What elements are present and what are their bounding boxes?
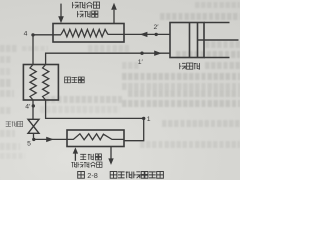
condenser box	[53, 24, 124, 43]
wire: regenerator to throttle valve	[32, 100, 34, 120]
label: 压缩机 (compressor)	[179, 63, 200, 69]
evaporator box	[67, 130, 124, 147]
throttle valve (expansion valve)	[28, 119, 39, 133]
node 2'	[155, 33, 158, 36]
svg-text:2′: 2′	[153, 24, 159, 31]
wire: condenser to compressor (discharge line)	[108, 33, 170, 35]
condenser coil	[61, 29, 108, 36]
arrow: flow into evaporator	[46, 137, 54, 142]
svg-text:2-8: 2-8	[87, 171, 98, 180]
wire: regenerator top to compressor (suction line)	[46, 53, 170, 64]
node 4'	[32, 104, 35, 107]
node 1	[142, 117, 145, 120]
arrow: chilled medium out (down from evaporator)	[108, 147, 113, 165]
svg-text:1: 1	[147, 116, 151, 123]
label: 蒸发器 (evaporator)	[80, 154, 101, 160]
label: 回热器 (regenerator)	[65, 77, 85, 83]
node 4	[31, 33, 34, 36]
wire: evaporator outlet up to node 1	[124, 118, 144, 140]
svg-text:5: 5	[27, 140, 31, 147]
wire: node 4 to condenser inlet	[33, 34, 61, 36]
arrow: flow into condenser	[140, 32, 148, 37]
regenerator cold-side coil	[43, 65, 49, 101]
arrow: cooling medium out (up from condenser)	[111, 3, 117, 24]
arrow: cooling medium in (down into condenser)	[58, 4, 64, 24]
label: 节流阀 (throttle valve)	[6, 121, 23, 126]
label: 被冷却介质 (chilled medium)	[71, 162, 102, 167]
svg-text:4′: 4′	[25, 103, 31, 110]
label: 冷凝器 (condenser)	[77, 11, 98, 17]
wire: node 1 to regenerator cold side inlet	[46, 100, 144, 118]
node 1'	[140, 52, 143, 55]
wire: valve to evaporator inlet	[34, 133, 68, 139]
label: 冷却介质 (cooling medium)	[72, 2, 99, 8]
evaporator coil	[67, 134, 124, 140]
svg-text:4: 4	[24, 30, 28, 37]
arrow: chilled medium in (up into evaporator)	[73, 147, 78, 160]
caption: 图2-8 回热循环系统图	[78, 171, 164, 180]
compressor U1 (cylinder, piston, rod)	[170, 23, 239, 58]
node 5	[32, 138, 35, 141]
svg-text:1′: 1′	[138, 59, 144, 66]
wire: node 4 down to regenerator hot side	[32, 35, 34, 65]
arrow: flow into compressor	[154, 51, 162, 56]
regenerator hot-side coil	[30, 65, 36, 101]
regenerator box	[23, 65, 58, 101]
